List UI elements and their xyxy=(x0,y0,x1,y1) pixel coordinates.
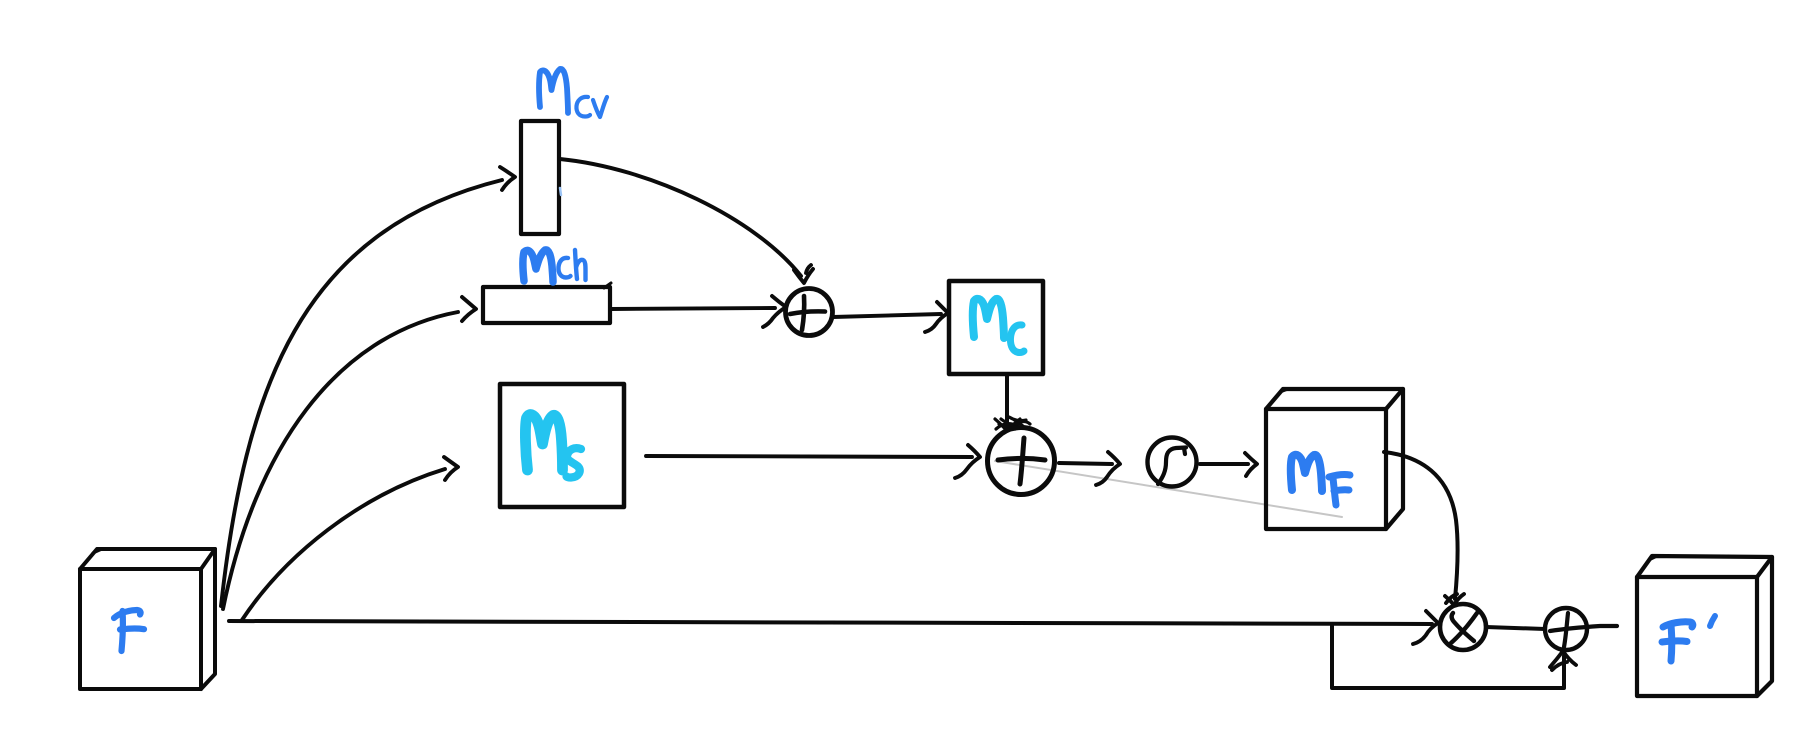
wire Ms to sum S2 xyxy=(646,445,980,478)
label Mch xyxy=(523,250,586,282)
wire Mcv to sum S1 (curved arrow) xyxy=(560,159,813,283)
block Mcv (vertical rectangle) xyxy=(521,121,559,234)
wire MF to multiply (curved arrow) xyxy=(1384,452,1464,605)
block F (3D box) xyxy=(80,549,215,689)
block Ms xyxy=(500,384,624,507)
wire feedback to S3 xyxy=(1332,625,1576,688)
multiply junction (×) xyxy=(1440,604,1486,650)
summing junction S2 (+) xyxy=(988,428,1055,495)
label F xyxy=(114,610,144,651)
sigmoid σ xyxy=(1148,438,1197,487)
wire Mc to sum S2 xyxy=(995,375,1030,431)
block Mch (horizontal rectangle) xyxy=(483,283,611,323)
wire F to Ms (curved arrow) xyxy=(242,457,458,620)
block Mc xyxy=(949,281,1043,374)
summing junction S1 (+) xyxy=(786,289,833,336)
label F' xyxy=(1662,616,1715,661)
label Ms xyxy=(525,415,581,478)
label MF xyxy=(1291,455,1350,505)
wire F main horizontal xyxy=(229,611,1438,644)
wire F to Mcv (curved arrow) xyxy=(221,167,515,606)
block F' (3D box) xyxy=(1637,556,1772,696)
wire S2 to sigmoid xyxy=(1059,452,1120,485)
wire Mch to sum S1 xyxy=(611,296,786,327)
summing junction S3 (+) xyxy=(1545,608,1617,650)
label Mc xyxy=(973,299,1024,353)
stray gray line xyxy=(995,461,1342,517)
wire multiply to sum S3 xyxy=(1486,627,1545,629)
wire S1 to Mc xyxy=(833,302,948,332)
wire F to Mch (curved arrow) xyxy=(223,297,476,609)
label Mcv xyxy=(539,69,607,117)
block MF (3D box) xyxy=(1266,389,1403,529)
stray blue tick xyxy=(560,188,561,195)
wire sigmoid to MF xyxy=(1200,453,1257,476)
